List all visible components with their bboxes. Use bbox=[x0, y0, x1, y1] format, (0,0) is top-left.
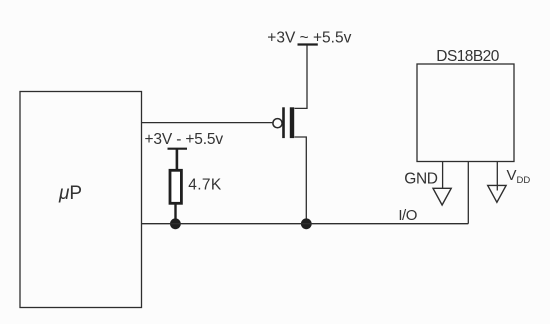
svg-text:+3V - +5.5v: +3V - +5.5v bbox=[145, 131, 224, 148]
resistor R1 body bbox=[170, 170, 181, 203]
supply rail bar +3V ~ +5.5v bbox=[298, 43, 318, 45]
svg-text:μP: μP bbox=[58, 183, 82, 204]
wire: supply bar to resistor R1 bbox=[176, 149, 179, 170]
DS18B20 sensor U2 box bbox=[417, 64, 514, 162]
wire: gate wire from μP to Q1 bbox=[142, 122, 273, 124]
wire: Q1 drain up to +3V supply bbox=[295, 45, 308, 109]
wire: Q1 source down to node B bbox=[295, 137, 307, 224]
wire: DS18B20 VDD pin bbox=[496, 162, 498, 191]
wire: resistor R1 to node A bbox=[174, 205, 176, 223]
junction node A dot bbox=[170, 218, 181, 229]
svg-text:+3V ~ +5.5v: +3V ~ +5.5v bbox=[267, 29, 351, 46]
transistor Q1 channel plate bbox=[290, 107, 294, 138]
ground arrow at VDD pin bbox=[488, 185, 506, 202]
svg-text:GND: GND bbox=[404, 171, 437, 188]
svg-text:4.7K: 4.7K bbox=[188, 176, 222, 193]
ground arrow at GND pin bbox=[433, 188, 451, 205]
transistor Q1 gate bubble bbox=[273, 119, 282, 128]
svg-text:VDD: VDD bbox=[507, 167, 531, 186]
wire: I/O riser to DS18B20 DQ pin bbox=[467, 162, 469, 224]
transistor Q1 gate plate bbox=[282, 107, 285, 138]
wire: I/O bus from μP to DS18B20 bbox=[142, 223, 469, 225]
svg-text:I/O: I/O bbox=[398, 207, 417, 224]
wire: DS18B20 GND pin bbox=[442, 162, 444, 189]
svg-text:DS18B20: DS18B20 bbox=[436, 48, 499, 65]
microprocessor U1 box bbox=[20, 92, 142, 308]
supply rail bar (pull-up) bbox=[168, 148, 188, 150]
junction node B dot bbox=[301, 218, 312, 229]
